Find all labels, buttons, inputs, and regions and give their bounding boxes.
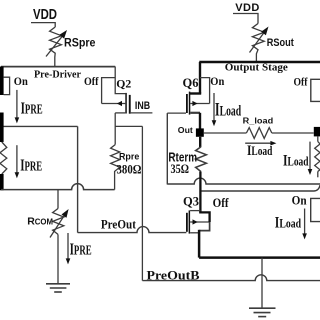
- svg-text:35Ω: 35Ω: [171, 161, 190, 176]
- resistor RSout (variable): [250, 24, 295, 63]
- wire right column lower: [317, 172, 319, 178]
- svg-text:IPRE: IPRE: [21, 99, 43, 118]
- svg-text:Off: Off: [294, 74, 309, 88]
- wire Q3 source jog: [199, 222, 210, 231]
- svg-text:ILoad: ILoad: [275, 214, 302, 231]
- svg-text:VDD: VDD: [235, 2, 259, 14]
- wire bottom rail (thick): [199, 256, 320, 259]
- resistor RSpre (variable): [46, 27, 96, 67]
- svg-text:INB: INB: [135, 100, 150, 112]
- wire ground lead (output): [261, 258, 263, 308]
- wire left bar lower: [0, 174, 4, 190]
- wire right column: [317, 136, 319, 141]
- resistor Rpre: [111, 145, 142, 190]
- svg-text:RSout: RSout: [267, 37, 294, 49]
- wire rail3 (hops over PreOut wire): [1, 184, 115, 190]
- current arrow IPRE 1: [15, 90, 43, 124]
- transistor Off (output right edge): [294, 74, 320, 101]
- current arrow ILoad 4: [275, 209, 307, 240]
- node Out (square): [196, 128, 204, 136]
- svg-text:RSpre: RSpre: [64, 38, 96, 50]
- wire Q6 source to Out node (thick): [199, 113, 201, 129]
- wire Q6 gate vertical: [166, 113, 168, 184]
- wire Q2 source down: [114, 113, 116, 145]
- wire gate line to right (hops Out wire and right wire): [167, 178, 320, 184]
- wire rail2: [0, 125, 78, 127]
- wire PreOut vertical: [77, 126, 79, 232]
- resistor RCOM (variable): [27, 190, 68, 238]
- wire output stage rail (thick): [199, 61, 320, 63]
- resistor Rterm: [168, 147, 206, 176]
- wire PreOutB horizontal (hops over ground wire): [142, 275, 320, 281]
- svg-text:Output Stage: Output Stage: [225, 61, 288, 73]
- transistor On (output right edge, bottom): [292, 193, 320, 221]
- wire Q3 drain jog (thick): [199, 212, 209, 222]
- svg-text:Out: Out: [178, 125, 193, 135]
- svg-text:R_load: R_load: [243, 117, 274, 126]
- svg-text:PreOut: PreOut: [101, 217, 137, 231]
- wire rail1 pre-driver top: [1, 66, 115, 68]
- svg-text:Off: Off: [213, 195, 230, 210]
- transistor M1 (On, left edge, diode-connected): [0, 67, 28, 96]
- svg-text:Q3: Q3: [183, 195, 199, 209]
- current arrow IPRE 3: [66, 233, 92, 264]
- svg-text:ILoad: ILoad: [215, 100, 242, 121]
- wire PreOutB column vertical: [141, 126, 143, 280]
- node VDD (pre-driver): [31, 6, 57, 27]
- current arrow ILoad 3: [283, 142, 312, 175]
- current arrow IPRE 2: [15, 145, 43, 178]
- svg-text:On: On: [292, 193, 307, 207]
- svg-text:IPRE: IPRE: [20, 156, 42, 175]
- ground (output stage): [249, 308, 276, 316]
- svg-text:ILoad: ILoad: [283, 153, 309, 170]
- svg-text:380Ω: 380Ω: [117, 162, 142, 176]
- resistor R_load: [204, 117, 314, 139]
- current arrow ILoad 2: [245, 141, 276, 159]
- node Out right (square): [314, 127, 320, 136]
- wire Out node to Rterm (thick): [199, 137, 201, 147]
- ground (pre-driver): [46, 284, 70, 292]
- transistor M2 bar (left edge): [0, 113, 4, 143]
- wire PreOut horizontal (hops over PreOutB column): [78, 227, 187, 233]
- svg-text:Q6: Q6: [183, 76, 199, 90]
- svg-text:Rpre: Rpre: [119, 151, 139, 161]
- transistor Q6 (On): [167, 62, 224, 115]
- svg-text:On: On: [14, 74, 28, 88]
- transistor Q2: [102, 67, 153, 114]
- svg-text:PreOutB: PreOutB: [147, 269, 200, 283]
- svg-text:ILoad: ILoad: [247, 143, 272, 159]
- svg-text:On: On: [210, 74, 224, 88]
- resistor left-edge (pre-driver lower): [0, 142, 7, 174]
- svg-text:Off: Off: [84, 74, 99, 88]
- svg-text:Q2: Q2: [116, 77, 131, 91]
- svg-text:RCOM: RCOM: [27, 216, 53, 228]
- wire to bottom rail (thick): [198, 230, 201, 258]
- svg-text:Pre-Driver: Pre-Driver: [34, 70, 81, 81]
- current arrow ILoad 1: [212, 93, 242, 126]
- resistor right-edge: [315, 142, 320, 172]
- wire Rterm to Q3 (thick, crosses gate line hop): [199, 172, 201, 213]
- node VDD (output stage): [233, 2, 260, 24]
- svg-text:IPRE: IPRE: [70, 239, 92, 258]
- svg-text:VDD: VDD: [33, 6, 57, 23]
- wire branch to PreOutB column: [115, 125, 142, 127]
- wire ground lead (RCOM): [57, 234, 59, 283]
- wire Rterm node to right (exits edge): [200, 185, 320, 191]
- transistor Q3 (Off): [183, 195, 229, 234]
